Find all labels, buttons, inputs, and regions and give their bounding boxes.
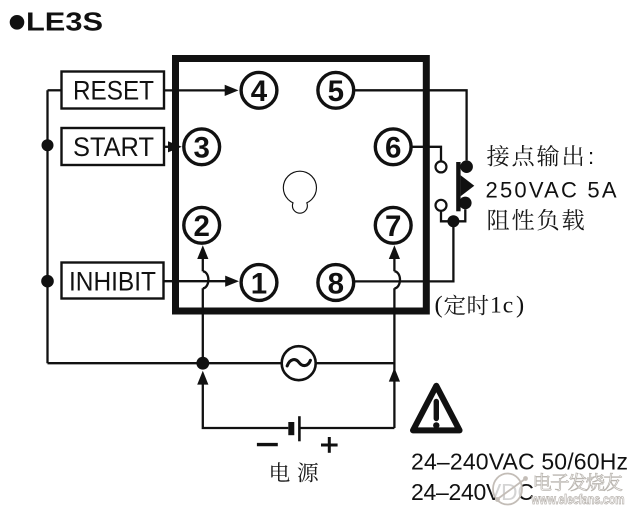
wire: pin 2 drop lower segment [202, 288, 204, 363]
svg-text:6: 6 [385, 132, 401, 165]
wire: rail to RESET box [48, 89, 62, 91]
wire: AC supply line [48, 362, 395, 364]
node: rail-START junction [42, 139, 54, 151]
contact: NO open terminal [436, 200, 447, 211]
pin 7 [375, 207, 411, 243]
wire: left common rail [46, 90, 48, 363]
svg-text:250VAC 5A: 250VAC 5A [486, 178, 617, 203]
wire hop over INHIBIT wire [203, 271, 209, 288]
wire: START to pin 3 with arrow [164, 146, 173, 148]
wire: pin 5 to contact common [355, 90, 467, 160]
START input box [62, 128, 165, 165]
wire: pin 7 drop to battery corner [393, 288, 395, 428]
battery positive plate [298, 416, 301, 441]
arrow up on supply line below AC node [389, 368, 400, 382]
svg-text:START: START [73, 132, 154, 162]
svg-text:LE3S: LE3S [26, 9, 103, 37]
RESET input box [62, 72, 165, 109]
svg-text:1: 1 [251, 267, 267, 300]
pin 5 [318, 72, 354, 108]
wire: battery left leg [203, 384, 288, 429]
svg-text:24–240VAC 50/60Hz: 24–240VAC 50/60Hz [411, 449, 628, 475]
wire: battery right leg [299, 427, 394, 429]
contact: fixed dot upper [460, 160, 473, 173]
contact: fixed dot lower [459, 197, 472, 210]
svg-text::: : [588, 144, 594, 169]
contact: movable pole bar [456, 162, 460, 211]
svg-text:8: 8 [328, 267, 344, 300]
arrow up into pin 2 [197, 245, 208, 259]
arrow up into supply junction [197, 371, 208, 385]
label: resistive load 阻性负载 [488, 209, 509, 230]
pin 2 [184, 207, 220, 243]
arrow up into pin 7 [389, 245, 400, 259]
wire: pin 6 to NC terminal [411, 147, 442, 162]
wire: pin 8 to contact output [355, 221, 454, 281]
wire: NO terminal link [441, 211, 453, 222]
svg-text:7: 7 [385, 210, 401, 243]
label: power source 电源 [271, 462, 289, 481]
svg-text:INHIBIT: INHIBIT [69, 267, 156, 297]
wire hop over pin-8 wire [394, 271, 400, 288]
INHIBIT input box [62, 263, 164, 299]
label: contact output 接点输出: [487, 145, 509, 166]
AC source symbol [282, 346, 316, 380]
svg-text:): ) [516, 292, 524, 319]
wire: pin 7 drop upper segment [393, 258, 395, 271]
wire: INHIBIT to pin 1 with arrow [164, 280, 227, 282]
title bullet [10, 15, 25, 30]
contact: movable wiper triangle [461, 175, 475, 196]
svg-text:3: 3 [193, 132, 209, 165]
wire: RESET to pin 4 with arrow [164, 89, 226, 91]
node: rail-INHIBIT junction [41, 275, 54, 288]
svg-text:(: ( [435, 292, 443, 319]
label: plus [321, 444, 338, 447]
pin 1 [241, 265, 277, 301]
svg-text:5: 5 [328, 75, 344, 108]
node: supply junction [196, 357, 209, 370]
svg-text:www.elecfans.com: www.elecfans.com [531, 492, 625, 507]
contact: NC open terminal [436, 161, 447, 172]
pin 3 [184, 129, 220, 165]
label: minus [257, 443, 278, 446]
relay socket outline [176, 59, 427, 312]
svg-text:RESET: RESET [73, 76, 154, 106]
watermark logo ellipse [493, 474, 522, 505]
socket keyhole [284, 172, 316, 204]
svg-text:1c: 1c [490, 293, 514, 319]
svg-text:4: 4 [251, 75, 268, 108]
pin 4 [241, 72, 277, 108]
watermark text 电子发烧友 [535, 473, 551, 490]
battery negative plate [288, 422, 294, 435]
pin 6 [375, 129, 411, 165]
warning triangle [413, 386, 460, 431]
wire: pin 2 drop upper segment [202, 258, 204, 271]
pin 8 [318, 265, 354, 301]
svg-text:2: 2 [193, 210, 209, 243]
node: contact output junction [447, 215, 459, 227]
